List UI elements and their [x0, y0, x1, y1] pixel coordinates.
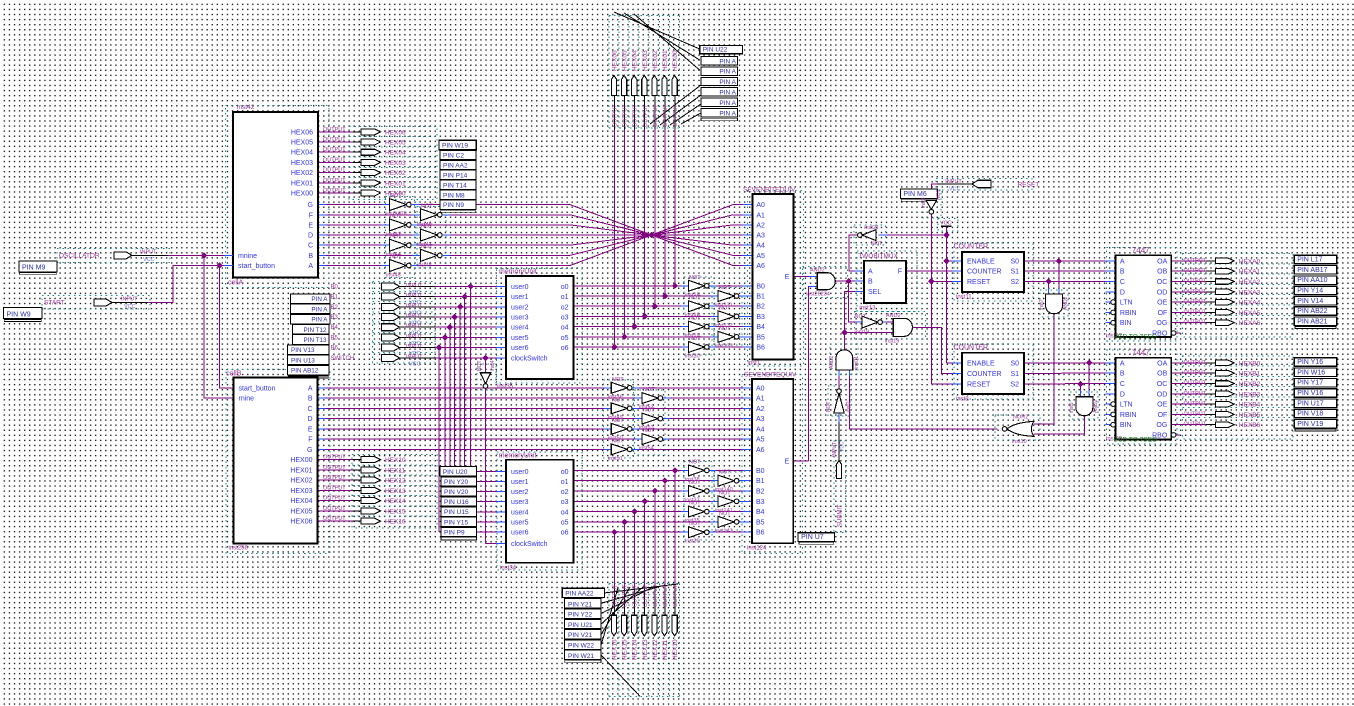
- selection box NOT18 AND19 group: [855, 311, 926, 339]
- svg-text:OUTPUT: OUTPUT: [323, 127, 346, 133]
- svg-text:LTN: LTN: [1120, 300, 1133, 307]
- svg-text:inst2: inst2: [846, 401, 852, 412]
- svg-text:NOT: NOT: [643, 428, 655, 434]
- svg-text:PIN Y17: PIN Y17: [1297, 380, 1323, 387]
- svg-text:VCC: VCC: [840, 441, 846, 452]
- svg-text:inst18: inst18: [855, 330, 870, 336]
- svg-text:PIN AB22: PIN AB22: [1297, 308, 1327, 315]
- svg-text:NOT: NOT: [689, 480, 701, 486]
- wire AND-up output node: [843, 333, 845, 350]
- junctions memoryUnit2 output cascade: [672, 467, 678, 473]
- NOT gate up inst2: [834, 393, 844, 413]
- NOT gates sevenSegEquiv2 B column2: [718, 475, 734, 486]
- wire RESET input to PIN M6 inverter: [937, 183, 972, 185]
- wire S2 branch to AND2 inst7: [1048, 281, 1050, 288]
- pin stack right2 bottom strip: [1295, 429, 1336, 431]
- svg-text:NOT: NOT: [390, 213, 402, 219]
- svg-text:o4: o4: [561, 325, 569, 332]
- input connector column VCC x8: [382, 283, 400, 290]
- svg-text:user6: user6: [511, 530, 529, 537]
- block COUNTER1: [962, 252, 1024, 292]
- svg-text:BCD TO 7SEG: BCD TO 7SEG: [1114, 334, 1157, 341]
- wire S0 branch to AND2 inst7: [1058, 261, 1060, 288]
- svg-text:INPUT: INPUT: [406, 314, 423, 320]
- selection box PIN M6 inverter: [923, 190, 941, 218]
- NOT gate inst18: [862, 316, 878, 328]
- svg-text:NOT: NOT: [390, 234, 402, 240]
- svg-text:HEX03: HEX03: [385, 160, 406, 167]
- svg-text:PIN A: PIN A: [719, 100, 736, 107]
- input connector RESET: [972, 180, 991, 188]
- svg-text:HEXB2: HEXB2: [1239, 381, 1261, 388]
- svg-text:cellB: cellB: [226, 371, 242, 378]
- svg-text:PIN AA2: PIN AA2: [443, 162, 468, 169]
- svg-text:B0: B0: [756, 283, 765, 290]
- svg-text:VCC: VCC: [949, 187, 961, 193]
- svg-text:OC: OC: [1157, 381, 1168, 388]
- svg-text:OSCILLATOR: OSCILLATOR: [59, 253, 100, 260]
- svg-text:OUTPUT: OUTPUT: [323, 496, 346, 502]
- svg-text:inst51: inst51: [608, 456, 623, 462]
- svg-text:PIN V14: PIN V14: [1297, 298, 1323, 305]
- svg-text:OUTPUT: OUTPUT: [673, 104, 679, 127]
- wires vertical droppers to bottom HEX connectors: [674, 470, 676, 589]
- svg-text:INPUT: INPUT: [406, 354, 423, 360]
- selection box COUNTER1: [954, 243, 1033, 301]
- svg-text:inst34: inst34: [500, 566, 517, 572]
- wires 7447-1 outputs to connectors: [1171, 260, 1206, 262]
- AND2 inst26234: [817, 273, 835, 290]
- svg-text:HEX05: HEX05: [385, 140, 406, 147]
- svg-text:OUTPUT: OUTPUT: [1184, 320, 1207, 326]
- svg-text:PIN N9: PIN N9: [443, 202, 464, 209]
- svg-text:PIN W19: PIN W19: [442, 143, 468, 150]
- wire AND2 inst7 output to NOR2: [1034, 314, 1054, 424]
- svg-text:cellA: cellA: [228, 280, 244, 287]
- selection box bottom HEX connector bundle: [608, 584, 610, 697]
- svg-text:OA: OA: [1157, 258, 1167, 265]
- svg-text:B3: B3: [756, 499, 765, 506]
- svg-text:E: E: [785, 458, 790, 465]
- NOT gates sevenSegEquiv2 B column1: [688, 465, 704, 476]
- svg-text:A0: A0: [756, 202, 765, 209]
- NOT gates cellA column2: [421, 209, 438, 221]
- svg-text:A0: A0: [756, 385, 765, 392]
- svg-text:OUTPUT: OUTPUT: [1184, 422, 1207, 428]
- svg-text:B2: B2: [756, 489, 765, 496]
- selection box sevenSegEquiv1: [748, 191, 804, 367]
- wire sevenSegEquiv1 E to AND2 inst26234: [793, 275, 809, 277]
- svg-text:HEX04: HEX04: [385, 150, 406, 157]
- svg-text:user4: user4: [511, 325, 529, 332]
- svg-text:A2: A2: [756, 406, 765, 413]
- selection box AND2 inst5: [1070, 392, 1098, 419]
- pin stack W19: [439, 140, 476, 150]
- svg-text:inst11: inst11: [854, 356, 860, 369]
- svg-text:B0: B0: [756, 468, 765, 475]
- svg-text:inst48: inst48: [417, 262, 432, 268]
- svg-text:OUTPUT: OUTPUT: [663, 104, 669, 127]
- svg-text:o5: o5: [561, 519, 569, 526]
- NOT gates sevenSegEquiv1 B column2: [718, 291, 734, 302]
- selection box cellA output connectors: [349, 127, 437, 200]
- leader lines top pin stack: [614, 12, 700, 49]
- leader lines bottom pin stack: [605, 584, 678, 593]
- selection box cellB output connectors: [352, 455, 437, 529]
- svg-text:HEX11: HEX11: [662, 640, 669, 660]
- svg-text:HEX02: HEX02: [652, 50, 659, 71]
- wires input cascade verticals to memoryUnit2 users: [470, 286, 472, 471]
- svg-text:OD: OD: [1157, 289, 1168, 296]
- svg-text:B: B: [1120, 269, 1125, 276]
- svg-text:HEXA6: HEXA6: [1239, 320, 1261, 327]
- svg-text:PIN Y21: PIN Y21: [568, 601, 592, 608]
- svg-text:OUTPUT: OUTPUT: [1184, 279, 1207, 285]
- svg-text:user3: user3: [511, 315, 529, 322]
- svg-text:memoryUnit: memoryUnit: [499, 453, 537, 460]
- svg-text:HEX14: HEX14: [385, 498, 406, 505]
- wire NOR2 output to AND-up input: [849, 377, 997, 429]
- svg-text:B1: B1: [756, 294, 765, 301]
- svg-text:NOT: NOT: [871, 241, 883, 247]
- bottom HEX output connectors vertical: [611, 615, 616, 636]
- svg-text:HEXA3: HEXA3: [1239, 289, 1261, 296]
- svg-text:OUTPUT: OUTPUT: [1184, 299, 1207, 305]
- svg-text:PIN AA10: PIN AA10: [1297, 277, 1327, 284]
- svg-text:NOT: NOT: [719, 511, 731, 517]
- svg-text:B0: B0: [331, 284, 339, 290]
- selection box memoryUnit2: [497, 452, 582, 570]
- selection box top HEX connector bundle: [608, 16, 610, 128]
- selection box cellA NOT column 2: [417, 207, 446, 269]
- svg-text:PIN P9: PIN P9: [444, 529, 465, 536]
- svg-text:OA: OA: [1157, 360, 1167, 367]
- pin box M6: [900, 189, 937, 198]
- junction clockSwitch net: [482, 355, 488, 361]
- wire NOT21 input from VCC node: [878, 234, 887, 236]
- svg-text:NOT: NOT: [612, 438, 624, 444]
- svg-text:HEX01: HEX01: [385, 180, 406, 187]
- svg-text:HEXA5: HEXA5: [1239, 310, 1261, 317]
- pin box U7: [798, 533, 835, 542]
- svg-text:clockSwitch: clockSwitch: [511, 541, 548, 548]
- svg-text:HEXA4: HEXA4: [1239, 300, 1261, 307]
- svg-text:OUTPUT: OUTPUT: [1184, 289, 1207, 295]
- wire COUNTER2 S1 to 7447-2 B: [1024, 372, 1106, 374]
- svg-text:7447: 7447: [1132, 246, 1150, 255]
- svg-text:PIN U20: PIN U20: [443, 469, 468, 476]
- junction SEL node: [841, 329, 847, 335]
- svg-text:BCD TO 7SEG: BCD TO 7SEG: [1114, 437, 1157, 444]
- svg-text:PIN A: PIN A: [311, 296, 328, 303]
- svg-text:inst13: inst13: [859, 306, 876, 312]
- wire INPUT switch to clockSwitch1: [400, 357, 436, 359]
- wire SEL from AND-up node: [844, 291, 855, 332]
- svg-text:A1: A1: [756, 212, 765, 219]
- svg-text:OUTPUT: OUTPUT: [1184, 360, 1207, 366]
- svg-text:HEX11: HEX11: [385, 467, 405, 474]
- svg-text:user0: user0: [511, 284, 529, 291]
- svg-text:user4: user4: [511, 509, 529, 516]
- svg-text:PIN M6: PIN M6: [903, 191, 926, 198]
- svg-text:G: G: [307, 447, 312, 454]
- svg-text:OUTPUT: OUTPUT: [323, 147, 346, 153]
- svg-text:VCC: VCC: [124, 304, 136, 310]
- svg-text:OUTPUT: OUTPUT: [673, 584, 679, 607]
- svg-text:PIN V21: PIN V21: [568, 632, 593, 639]
- wire START to start_button both cells: [112, 302, 148, 304]
- output connectors cellA HEX06-HEX00: [361, 129, 381, 135]
- svg-text:HEX16: HEX16: [612, 639, 619, 660]
- NOT gate down PIN M6: [926, 200, 936, 209]
- svg-text:B3: B3: [756, 314, 765, 321]
- wire S2-2 branch to AND2 inst5: [1080, 384, 1082, 390]
- svg-text:HEX16: HEX16: [385, 519, 406, 526]
- svg-text:inst133: inst133: [715, 343, 733, 349]
- block sevenSegEquiv1: [752, 194, 793, 360]
- svg-text:OUTPUT: OUTPUT: [1184, 309, 1207, 315]
- svg-text:INPUT: INPUT: [832, 442, 838, 457]
- svg-text:HEXB0: HEXB0: [1239, 360, 1261, 367]
- svg-text:HEX02: HEX02: [385, 170, 406, 177]
- svg-text:PIN A: PIN A: [719, 58, 736, 65]
- svg-text:ENABLE: ENABLE: [967, 259, 995, 266]
- svg-text:PIN A: PIN A: [311, 317, 328, 324]
- svg-text:PIN U13: PIN U13: [291, 357, 315, 364]
- svg-text:A: A: [1120, 360, 1125, 367]
- svg-text:NOT: NOT: [719, 285, 731, 291]
- svg-text:E: E: [785, 274, 790, 281]
- svg-text:PIN T13: PIN T13: [304, 337, 327, 344]
- svg-text:OB: OB: [1157, 371, 1167, 378]
- svg-text:OUTPUT: OUTPUT: [623, 104, 629, 127]
- svg-text:PIN A: PIN A: [719, 69, 736, 76]
- svg-text:B6: B6: [756, 530, 765, 537]
- svg-text:S0: S0: [1010, 360, 1019, 367]
- svg-text:F: F: [309, 212, 313, 219]
- svg-text:B: B: [1120, 371, 1125, 378]
- svg-text:HEX05: HEX05: [622, 50, 629, 71]
- pin stack right 1: [1294, 255, 1337, 263]
- svg-text:PIN U15: PIN U15: [444, 509, 469, 516]
- svg-text:NOT: NOT: [689, 316, 701, 322]
- svg-text:E: E: [308, 426, 313, 433]
- svg-text:INPUT: INPUT: [406, 303, 423, 309]
- svg-text:A6: A6: [756, 447, 765, 454]
- AND2 gate down inst5: [1076, 397, 1093, 416]
- svg-text:BIN: BIN: [1120, 320, 1132, 327]
- svg-text:OUTPUT: OUTPUT: [1184, 381, 1207, 387]
- svg-text:inst7: inst7: [1039, 299, 1045, 310]
- svg-text:AND2: AND2: [886, 313, 901, 319]
- svg-text:B4: B4: [331, 325, 339, 331]
- svg-text:PIN M9: PIN M9: [22, 265, 45, 272]
- block cellB: [234, 378, 318, 544]
- svg-text:NOT: NOT: [477, 360, 483, 371]
- svg-text:PIN C2: PIN C2: [443, 153, 464, 160]
- selection box RESET input: [936, 178, 1032, 190]
- svg-text:inst8: inst8: [956, 397, 969, 403]
- svg-text:HEXA1: HEXA1: [1239, 269, 1261, 276]
- selection box cellA: [226, 106, 330, 288]
- svg-text:OB: OB: [1157, 269, 1167, 276]
- wires cellA HEX outputs to connectors: [318, 131, 353, 133]
- svg-text:o3: o3: [561, 499, 569, 506]
- selection box AND2 inst26234: [803, 267, 848, 298]
- svg-text:OUTPUT: OUTPUT: [323, 465, 346, 471]
- wires cellB A..G to NOT gates and sevenSegEquiv2 A: [318, 387, 326, 389]
- svg-text:o6: o6: [561, 345, 569, 352]
- wires INPUT column to memoryUnit1 users: [400, 285, 436, 287]
- selection box AND up chain: [830, 344, 858, 374]
- svg-text:BIN: BIN: [1120, 422, 1132, 429]
- svg-text:AND2: AND2: [810, 268, 825, 274]
- svg-text:AND2: AND2: [1063, 296, 1069, 310]
- svg-text:NOR2: NOR2: [1013, 415, 1028, 421]
- svg-text:o6: o6: [561, 530, 569, 537]
- pin stack right1 bottom strip: [1295, 327, 1336, 329]
- svg-text:o0: o0: [561, 469, 569, 476]
- svg-text:COUNTER: COUNTER: [954, 244, 989, 251]
- svg-text:PIN U21: PIN U21: [568, 622, 593, 629]
- svg-text:NOT: NOT: [643, 408, 655, 414]
- wires 7447-2 outputs to connectors: [1171, 362, 1206, 364]
- wire SUBMIT input chain: [838, 422, 840, 460]
- svg-text:D: D: [308, 233, 313, 240]
- svg-text:NOT: NOT: [855, 314, 867, 320]
- wire AND2 inst26234 output to TWOBITMUX B: [835, 280, 848, 282]
- wire TWOBITMUX F to COUNTER1 COUNTER input: [906, 270, 952, 272]
- svg-text:SEVENBITEQUIV: SEVENBITEQUIV: [743, 187, 796, 194]
- wires vertical risers to top HEX connectors: [674, 130, 676, 286]
- svg-text:VCC: VCC: [940, 220, 952, 226]
- svg-text:SUBMIT: SUBMIT: [838, 504, 844, 527]
- svg-text:o1: o1: [561, 294, 569, 301]
- svg-text:PIN A: PIN A: [311, 306, 328, 313]
- svg-text:OUTPUT: OUTPUT: [1184, 411, 1207, 417]
- svg-text:inst1: inst1: [748, 361, 761, 367]
- output connectors cellB HEX10-HEX16: [361, 457, 381, 463]
- wire COUNTER2 S0 to 7447-2 A: [1024, 362, 1106, 364]
- svg-text:inst42: inst42: [237, 104, 255, 111]
- svg-text:C: C: [308, 243, 313, 250]
- selection box 7447 output connector rows 1: [1183, 254, 1294, 337]
- svg-text:PIN Y22: PIN Y22: [568, 612, 592, 619]
- svg-text:inst54: inst54: [639, 446, 654, 452]
- svg-text:PIN V19: PIN V19: [1297, 421, 1323, 428]
- junctions input cascade: [467, 283, 473, 289]
- svg-text:OUTPUT: OUTPUT: [323, 188, 346, 194]
- svg-text:OUTPUT: OUTPUT: [1184, 258, 1207, 264]
- svg-text:S0: S0: [1010, 259, 1019, 266]
- input connector START: [94, 299, 112, 306]
- svg-text:C: C: [307, 406, 312, 413]
- svg-text:OF: OF: [1158, 310, 1168, 317]
- svg-text:PIN U16: PIN U16: [444, 499, 469, 506]
- svg-text:OE: OE: [1157, 402, 1167, 409]
- svg-text:INPUT: INPUT: [406, 293, 423, 299]
- svg-text:F: F: [308, 437, 312, 444]
- svg-text:PIN W22: PIN W22: [568, 643, 594, 650]
- svg-text:HEX06: HEX06: [290, 519, 312, 526]
- svg-text:HEX02: HEX02: [291, 170, 313, 177]
- svg-text:HEX10: HEX10: [385, 457, 406, 464]
- svg-text:HEXB1: HEXB1: [1239, 371, 1261, 378]
- svg-text:NOT: NOT: [689, 336, 701, 342]
- svg-text:mnine: mnine: [238, 253, 257, 260]
- svg-text:HEX10: HEX10: [672, 639, 679, 660]
- svg-text:inst124: inst124: [747, 546, 767, 552]
- svg-text:inst10: inst10: [1012, 439, 1027, 445]
- wires NOT outputs fan to sevenSegEquiv1 A inputs: [412, 204, 419, 206]
- svg-text:HEX04: HEX04: [290, 498, 312, 505]
- svg-text:PIN Y16: PIN Y16: [1297, 359, 1323, 366]
- svg-text:OF: OF: [1158, 412, 1168, 419]
- selection box AND2 inst7: [1040, 290, 1068, 317]
- svg-text:HEXA2: HEXA2: [1239, 279, 1261, 286]
- block cellA: [233, 112, 318, 278]
- svg-text:PIN A: PIN A: [719, 79, 736, 86]
- pin stack cellB area: [291, 294, 331, 304]
- svg-text:PIN T14: PIN T14: [443, 182, 467, 189]
- svg-text:NOT: NOT: [612, 377, 624, 383]
- svg-text:memoryUnit: memoryUnit: [499, 269, 537, 276]
- wire NOT18 output to AND19: [880, 321, 886, 323]
- svg-text:NOT: NOT: [719, 470, 731, 476]
- svg-text:inst11: inst11: [956, 295, 972, 301]
- svg-text:OUTPUT: OUTPUT: [323, 485, 346, 491]
- wire COUNTER2 S2 to 7447-2 C: [1024, 383, 1106, 386]
- svg-text:PIN AA22: PIN AA22: [565, 590, 594, 597]
- svg-text:start_button: start_button: [239, 385, 276, 392]
- svg-text:B2: B2: [756, 304, 765, 311]
- svg-text:B1: B1: [331, 295, 339, 301]
- svg-text:RESET: RESET: [1018, 182, 1040, 189]
- selection box cellA NOT column 1: [386, 197, 415, 278]
- selection box sevenSegEquiv1 B NOT columns: [684, 277, 712, 355]
- svg-text:NOT: NOT: [421, 244, 433, 250]
- NOT gates sevenSegEquiv2 A column2: [642, 393, 658, 404]
- svg-text:HEX05: HEX05: [290, 508, 312, 515]
- svg-text:HEX04: HEX04: [291, 150, 313, 157]
- svg-text:OG: OG: [1156, 320, 1167, 327]
- svg-text:A4: A4: [756, 243, 765, 250]
- svg-text:NOT: NOT: [689, 459, 701, 465]
- svg-text:A3: A3: [756, 416, 765, 423]
- selection box sevenSegEquiv2: [742, 375, 803, 554]
- svg-text:HEX15: HEX15: [622, 639, 629, 660]
- svg-text:HEX06: HEX06: [612, 50, 619, 71]
- svg-text:OUTPUT: OUTPUT: [1184, 370, 1207, 376]
- pin stack W19 bottom strip: [441, 210, 476, 212]
- svg-text:NOT: NOT: [612, 397, 624, 403]
- selection box cellB: [226, 370, 330, 554]
- svg-text:A: A: [308, 263, 313, 270]
- svg-text:NOT: NOT: [689, 501, 701, 507]
- svg-text:G: G: [308, 202, 313, 209]
- svg-text:rnine: rnine: [239, 396, 255, 403]
- svg-text:INPUT: INPUT: [945, 179, 962, 185]
- svg-text:COUNTER: COUNTER: [967, 371, 1002, 378]
- svg-text:B3: B3: [331, 315, 339, 321]
- svg-text:HEX12: HEX12: [652, 639, 659, 660]
- svg-text:A6: A6: [756, 263, 765, 270]
- svg-text:HEX00: HEX00: [290, 457, 312, 464]
- svg-text:PIN Y15: PIN Y15: [444, 519, 468, 526]
- junction crossing blob: [648, 232, 654, 238]
- svg-text:OUTPUT: OUTPUT: [663, 584, 669, 607]
- input connector OSCILLATOR: [114, 252, 132, 259]
